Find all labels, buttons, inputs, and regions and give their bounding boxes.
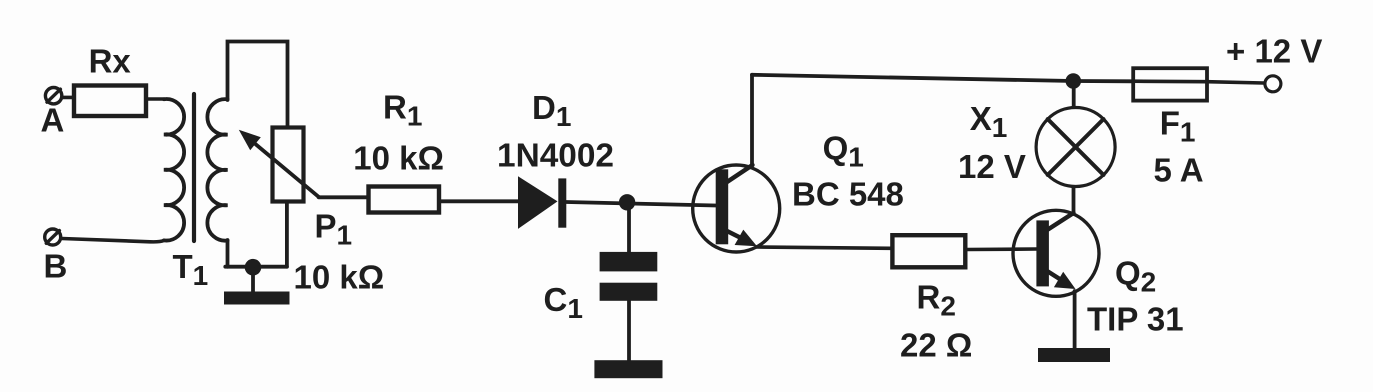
wire R2 to Q2 base bbox=[967, 247, 1036, 251]
capacitor C1 bbox=[600, 252, 658, 301]
svg-text:R2: R2 bbox=[917, 279, 956, 322]
lamp X1 bbox=[1036, 108, 1115, 187]
svg-text:Rx: Rx bbox=[89, 43, 132, 80]
wire C1 to ground bbox=[627, 301, 631, 360]
svg-text:22 Ω: 22 Ω bbox=[900, 327, 972, 364]
terminal B bbox=[45, 229, 61, 245]
wire D1 to Q1 base bbox=[566, 202, 715, 206]
wire F1 to +12V terminal bbox=[1207, 82, 1264, 83]
ground below Q2 bbox=[1038, 348, 1110, 362]
svg-text:R1: R1 bbox=[383, 89, 422, 132]
ground below C1 bbox=[594, 360, 662, 378]
wire top rail bbox=[752, 75, 1132, 82]
transformer T1 secondary winding bbox=[207, 99, 227, 241]
wire T1 secondary top to P1 top bbox=[228, 42, 288, 127]
wire Q2 emitter to ground bbox=[1073, 291, 1077, 349]
svg-text:12 V: 12 V bbox=[958, 148, 1026, 185]
wire secondary bottom to P1 bottom bbox=[225, 265, 287, 269]
wire Rx to T1 primary bbox=[146, 97, 164, 101]
wire A to Rx bbox=[62, 96, 73, 100]
svg-text:5 A: 5 A bbox=[1154, 152, 1204, 189]
svg-text:C1: C1 bbox=[544, 281, 583, 324]
transformer T1 primary winding bbox=[164, 99, 184, 241]
potentiometer P1 body bbox=[273, 128, 304, 202]
resistor Rx bbox=[74, 86, 146, 117]
svg-text:BC 548: BC 548 bbox=[792, 175, 904, 212]
svg-text:TIP 31: TIP 31 bbox=[1087, 301, 1184, 338]
junction node at T1 secondary bottom bbox=[245, 259, 262, 276]
svg-text:X1: X1 bbox=[970, 100, 1008, 143]
junction node top rail bbox=[1066, 73, 1082, 89]
svg-text:A: A bbox=[41, 102, 65, 139]
svg-text:10 kΩ: 10 kΩ bbox=[353, 140, 444, 177]
diode D1 bbox=[518, 176, 566, 229]
wire T1 secondary bottom lead bbox=[226, 240, 230, 267]
svg-text:F1: F1 bbox=[1160, 105, 1196, 148]
svg-text:D1: D1 bbox=[532, 89, 571, 132]
transformer T1 core bbox=[192, 94, 196, 241]
wire Q1 collector riser bbox=[750, 75, 754, 165]
svg-text:10 kΩ: 10 kΩ bbox=[294, 259, 385, 296]
svg-text:1N4002: 1N4002 bbox=[497, 137, 614, 174]
wire P1 wiper to R1 bbox=[319, 195, 368, 199]
wire rail to X1 bbox=[1072, 86, 1076, 107]
resistor R1 bbox=[369, 187, 440, 213]
wire junction to C1 bbox=[627, 204, 631, 252]
potentiometer P1 wiper arrow bbox=[239, 130, 319, 197]
wire junction to ground bbox=[251, 269, 255, 292]
wire X1 to Q2 collector bbox=[1072, 188, 1076, 213]
wire Q1 emitter to R2 bbox=[756, 247, 890, 248]
transistor Q2 bbox=[1013, 210, 1099, 296]
terminal +12V bbox=[1265, 76, 1281, 92]
svg-text:T1: T1 bbox=[173, 248, 209, 291]
svg-text:P1: P1 bbox=[315, 208, 353, 251]
wire P1 bottom lead bbox=[285, 202, 289, 267]
junction node D1/C1 bbox=[619, 194, 635, 210]
wire R1 to D1 bbox=[441, 199, 519, 203]
ground below T1 bbox=[224, 292, 290, 305]
svg-text:Q2: Q2 bbox=[1115, 255, 1156, 298]
svg-text:B: B bbox=[44, 248, 68, 285]
svg-text:Q1: Q1 bbox=[823, 130, 864, 173]
wire B to T1 primary bottom bbox=[62, 239, 164, 242]
svg-text:+ 12 V: + 12 V bbox=[1226, 33, 1322, 70]
terminal A bbox=[45, 88, 61, 104]
resistor R2 bbox=[892, 235, 965, 267]
fuse F1 bbox=[1133, 68, 1207, 100]
transistor Q1 bbox=[693, 165, 780, 252]
